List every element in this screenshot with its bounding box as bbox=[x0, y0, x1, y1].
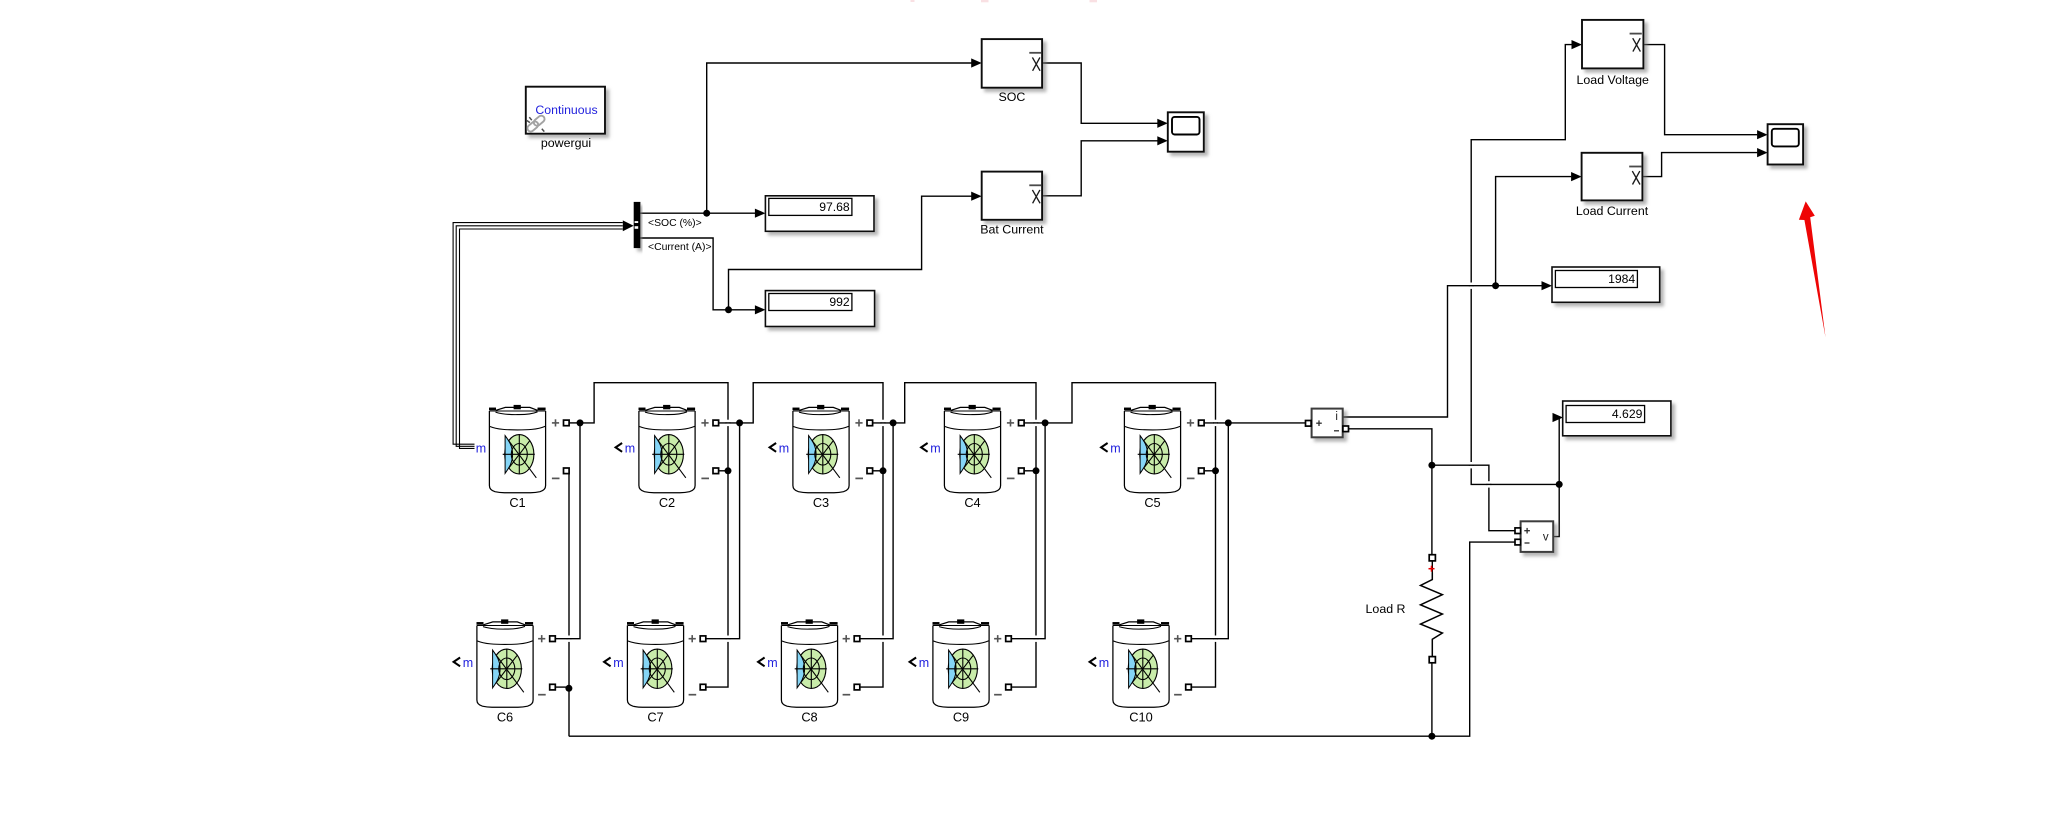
svg-text:m: m bbox=[767, 656, 777, 670]
svg-text:1984: 1984 bbox=[1608, 272, 1635, 286]
svg-text:m: m bbox=[476, 441, 486, 455]
svg-text:C5: C5 bbox=[1144, 495, 1160, 510]
svg-text:m: m bbox=[1110, 441, 1120, 455]
svg-text:v: v bbox=[1543, 532, 1549, 544]
svg-text:C3: C3 bbox=[813, 495, 829, 510]
svg-text:<SOC (%)>: <SOC (%)> bbox=[648, 218, 702, 229]
svg-text:4.629: 4.629 bbox=[1612, 407, 1643, 421]
svg-text:m: m bbox=[625, 441, 635, 455]
svg-text:C4: C4 bbox=[964, 495, 980, 510]
svg-text:i: i bbox=[1335, 411, 1338, 423]
svg-text:992: 992 bbox=[829, 295, 850, 309]
svg-text:m: m bbox=[930, 441, 940, 455]
svg-text:C7: C7 bbox=[647, 710, 663, 725]
svg-text:m: m bbox=[779, 441, 789, 455]
svg-text:SOC: SOC bbox=[998, 90, 1025, 104]
svg-text:Load Current: Load Current bbox=[1576, 204, 1649, 218]
svg-text:97.68: 97.68 bbox=[819, 200, 850, 214]
svg-text:Load Voltage: Load Voltage bbox=[1577, 73, 1649, 87]
svg-text:Bat Current: Bat Current bbox=[980, 222, 1044, 236]
svg-text:m: m bbox=[463, 656, 473, 670]
svg-text:C6: C6 bbox=[497, 710, 513, 725]
svg-text:m: m bbox=[1099, 656, 1109, 670]
svg-text:Load R: Load R bbox=[1366, 602, 1406, 616]
svg-text:C10: C10 bbox=[1129, 710, 1152, 725]
svg-text:C1: C1 bbox=[509, 495, 525, 510]
svg-text:C9: C9 bbox=[953, 710, 969, 725]
svg-text:m: m bbox=[919, 656, 929, 670]
svg-text:Continuous: Continuous bbox=[535, 103, 597, 117]
svg-text:<Current (A)>: <Current (A)> bbox=[648, 242, 712, 253]
svg-text:C8: C8 bbox=[801, 710, 817, 725]
svg-text:m: m bbox=[613, 656, 623, 670]
svg-text:powergui: powergui bbox=[541, 136, 591, 150]
svg-text:C2: C2 bbox=[659, 495, 675, 510]
